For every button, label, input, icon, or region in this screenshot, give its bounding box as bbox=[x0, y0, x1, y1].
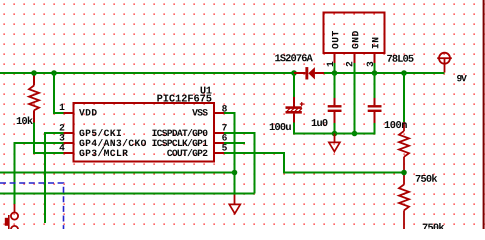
pin name ICSPCLK/GP1 bbox=[152, 139, 207, 146]
pin number 1 bbox=[60, 104, 65, 110]
label 1S2076A bbox=[275, 54, 313, 61]
pin 8 stub bbox=[214, 112, 224, 114]
wire GP5 pin2 net going down bbox=[45, 133, 64, 223]
wire pin7 net down to lower rail bbox=[224, 133, 255, 194]
node junction R3/R4/pin5 net bbox=[401, 170, 407, 176]
resistor R4 bottom lead bbox=[403, 210, 405, 229]
wire GP4 pin3 net to bottom-left pad bbox=[15, 143, 64, 204]
wire R3 to junction to R4 bbox=[403, 157, 405, 185]
pin 1 stub bbox=[64, 112, 74, 114]
resistor R4 750k zigzag bbox=[399, 185, 409, 211]
regulator pin number 2 bbox=[346, 62, 352, 67]
capacitor C1 100u polarized symbol bbox=[286, 106, 302, 109]
regulator pin number 1 bbox=[327, 62, 333, 67]
wire reg pin3 to rail bbox=[374, 63, 376, 73]
label 10k bbox=[17, 116, 33, 124]
supply symbol stem bbox=[444, 58, 446, 72]
connector body clipped at left edge bbox=[5, 218, 8, 226]
diode D1 lead left bbox=[294, 72, 305, 74]
wire R1 bottom to GP3 row bbox=[34, 123, 64, 154]
wire C3 bottom to gnd rail bbox=[355, 123, 375, 134]
wire rail down to R3 bbox=[403, 73, 405, 122]
resistor R3 750k top lead bbox=[403, 122, 405, 131]
pin 2 stub bbox=[64, 132, 74, 134]
node junction pin8 drop / mid rail bbox=[232, 170, 238, 176]
pin 7 stub bbox=[214, 132, 224, 134]
pin number 4 bbox=[59, 144, 64, 150]
pin 6 stub bbox=[214, 142, 224, 144]
capacitor C1 100u top lead bbox=[293, 97, 295, 107]
pin name GP5/CKI bbox=[79, 129, 121, 136]
pad circle JP pin bbox=[11, 212, 18, 219]
pin name VSS bbox=[192, 109, 208, 116]
regulator IC2 78L05 box bbox=[324, 13, 385, 54]
pin 5 stub bbox=[214, 152, 224, 154]
ground GND1 triangle bbox=[329, 142, 340, 151]
IC U1 box bbox=[74, 103, 215, 162]
wire from rail down to R1 top bbox=[33, 73, 35, 86]
capacitor C2 bottom lead bbox=[334, 112, 336, 123]
wire C1 bottom to gnd rail bbox=[294, 123, 335, 134]
pin number 5 bbox=[222, 144, 227, 150]
resistor R3 750k zigzag bbox=[399, 131, 409, 157]
wire R1 bottom lead red bbox=[33, 110, 35, 122]
wire VCC rail left segment bbox=[0, 72, 294, 74]
node junction rail/pin1 drop bbox=[51, 70, 57, 76]
ground GND2 triangle bbox=[229, 204, 240, 213]
regulator pin 2 stub bbox=[354, 53, 356, 63]
wire rail to VDD pin1 bbox=[54, 73, 64, 113]
pin 4 stub bbox=[64, 152, 74, 154]
text labels as paths bbox=[17, 31, 467, 231]
label U1 bbox=[201, 87, 212, 94]
pin name ICSPDAT/GP0 bbox=[152, 129, 207, 136]
wire VSS pin8 to gnd vertical bbox=[224, 113, 235, 194]
pin name GP3/MCLR bbox=[79, 149, 128, 156]
label 1u0 bbox=[312, 119, 328, 126]
pin name COUT/GP2 bbox=[167, 149, 207, 156]
diode D1 triangle bbox=[308, 67, 315, 79]
pin 3 stub bbox=[64, 142, 74, 144]
pin number 7 bbox=[222, 124, 227, 130]
supply symbol 9V circle bbox=[439, 53, 450, 64]
label 100u bbox=[270, 123, 291, 130]
label 9V bbox=[457, 75, 467, 82]
pin name GP4/AN3/CKO bbox=[79, 139, 146, 146]
wire lower rail y194 bbox=[0, 193, 255, 195]
capacitor C1 bottom lead bbox=[293, 114, 295, 123]
wire rail down to C1 100u bbox=[293, 73, 295, 97]
resistor R1 10k zigzag bbox=[29, 86, 39, 111]
ground GND2 stub bbox=[234, 194, 236, 205]
wire VCC rail right segment after diode bbox=[324, 72, 445, 74]
wire rail down to C3 100n bbox=[374, 73, 376, 98]
wire reg pin2 down to gnd rail bbox=[354, 63, 356, 134]
label 78L05 bbox=[387, 55, 413, 62]
node junction C2/gnd rail bbox=[332, 131, 338, 137]
pin number 2 bbox=[60, 124, 65, 130]
diode D1 cathode bar bbox=[305, 67, 308, 79]
wire rail down to C2 1u0 bbox=[334, 73, 336, 98]
node junction rail/R3 column bbox=[401, 70, 407, 76]
regulator pin 1 stub bbox=[334, 53, 336, 63]
pin number 3 bbox=[60, 134, 65, 141]
capacitor C3 100n plates bbox=[368, 105, 382, 107]
frame border right bbox=[483, 0, 485, 229]
ground GND1 stub bbox=[334, 134, 336, 143]
capacitor C3 100n top lead bbox=[374, 98, 376, 105]
diode D1 lead right bbox=[315, 72, 324, 74]
regulator pin 3 stub bbox=[374, 53, 376, 63]
wire mid rail y173 bbox=[0, 172, 235, 174]
node junction reg pin1/rail bbox=[332, 70, 338, 76]
wire pin6 stub net bbox=[224, 142, 245, 144]
wire C2 bottom to gnd rail bbox=[334, 123, 336, 134]
wire reg pin1 to rail bbox=[334, 63, 336, 73]
label 750k upper bbox=[416, 174, 438, 182]
regulator pin number 3 bbox=[367, 62, 374, 67]
supply symbol crossbar bbox=[437, 57, 452, 59]
regulator pin name OUT bbox=[332, 31, 339, 49]
capacitor C2 1u0 top lead bbox=[334, 98, 336, 105]
label 100n bbox=[385, 121, 407, 128]
capacitor C1 plus sign bbox=[300, 103, 304, 105]
pin number 8 bbox=[222, 105, 227, 112]
node junction pin2/gnd rail bbox=[352, 131, 358, 137]
wire pin5 net right-down-right bbox=[224, 153, 404, 173]
wire pad stub red bbox=[14, 204, 16, 212]
pin number 6 bbox=[222, 134, 227, 141]
pin name VDD bbox=[79, 109, 97, 115]
node junction reg pin3/rail bbox=[372, 70, 378, 76]
capacitor C3 bottom lead bbox=[374, 112, 376, 123]
node junction rail/R1 bbox=[31, 70, 37, 76]
capacitor C2 1u0 plates bbox=[328, 105, 342, 107]
regulator pin name GND bbox=[352, 31, 359, 49]
bus/frame blue dashed bbox=[0, 183, 64, 229]
label PIC12F675 bbox=[157, 95, 211, 102]
wire gnd rail segment bbox=[335, 133, 375, 135]
pad circle JP pin 2 (clipped) bbox=[11, 226, 18, 233]
regulator pin name IN bbox=[372, 38, 378, 49]
label 750k lower bbox=[423, 223, 445, 231]
node junction rail/100u bbox=[291, 70, 297, 76]
